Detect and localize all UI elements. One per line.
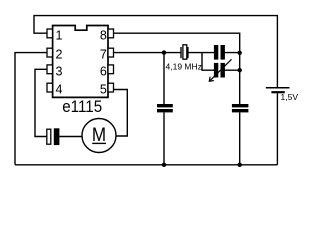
pin 1 <box>47 29 53 38</box>
IC U1 e1115 body with notch <box>53 26 108 98</box>
crystal X1 <box>181 45 188 59</box>
junction node right cap ground <box>238 163 242 167</box>
pin 7 <box>108 48 114 57</box>
svg-text:2: 2 <box>56 47 63 61</box>
battery 1,5V <box>266 88 290 92</box>
wire pin1 to top rail <box>34 16 277 87</box>
svg-text:M: M <box>92 123 106 145</box>
motor M <box>82 119 116 153</box>
svg-text:1: 1 <box>56 29 63 43</box>
svg-text:4,19 MHz: 4,19 MHz <box>166 62 202 72</box>
svg-text:e1115: e1115 <box>62 98 102 116</box>
wire trimmer left branch <box>202 53 214 71</box>
pin 2 <box>47 48 53 57</box>
trimmer capacitor <box>214 63 225 78</box>
pin 3 <box>47 65 53 74</box>
svg-text:7: 7 <box>100 47 107 61</box>
wire ground rail bottom <box>15 164 277 166</box>
wire pin8 top branch to cap network right <box>114 33 240 53</box>
wire pin7 to crystal <box>114 52 181 54</box>
svg-text:5: 5 <box>100 83 107 97</box>
wire pin3 to motor capacitor <box>35 69 47 136</box>
pin 5 <box>108 83 114 92</box>
svg-text:6: 6 <box>100 65 107 79</box>
wire trimmer right lead <box>224 69 240 71</box>
junction node left cap ground <box>162 163 166 167</box>
wire battery bottom lead <box>276 93 278 165</box>
wire pin2 to ground rail <box>15 53 47 165</box>
junction node cap network top right <box>238 51 242 55</box>
capacitor C right (bottom) <box>232 104 249 112</box>
capacitor C left (bottom) <box>157 104 173 112</box>
wire pin5 to motor right <box>114 90 128 137</box>
electrolytic capacitor at motor <box>47 128 82 145</box>
pin 4 <box>47 83 53 92</box>
pin 6 <box>108 65 114 74</box>
wire left cap vertical <box>163 53 165 165</box>
junction node at crystal input <box>162 50 166 54</box>
pin 8 <box>108 29 114 38</box>
wire crystal to caps left <box>189 52 215 54</box>
wire right cap vertical <box>239 53 241 165</box>
svg-text:1,5V: 1,5V <box>281 92 299 102</box>
wire top cap right lead <box>224 52 240 54</box>
IC label e1115 <box>62 98 102 116</box>
svg-text:8: 8 <box>100 29 107 43</box>
svg-text:4: 4 <box>56 83 63 97</box>
svg-text:3: 3 <box>56 65 63 79</box>
trimmer arrow <box>209 59 231 81</box>
capacitor top fixed (parallel with trimmer) <box>214 45 225 60</box>
junction node trimmer right <box>238 68 242 72</box>
